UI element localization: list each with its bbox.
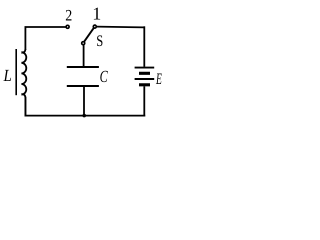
junction node dot <box>82 114 86 118</box>
terminal 2 <box>66 25 69 28</box>
svg-text:C: C <box>100 67 109 86</box>
svg-text:E: E <box>155 71 162 88</box>
svg-text:S: S <box>96 33 103 50</box>
wire: battery down to bottom wire <box>143 86 145 116</box>
wire: bottom horizontal <box>25 115 146 117</box>
capacitor C top plate <box>67 66 99 68</box>
battery E long plate 2 <box>135 78 155 80</box>
svg-text:L: L <box>3 66 12 85</box>
wire: top-left horizontal from inductor to terminal 2 <box>25 26 65 50</box>
capacitor C bottom plate <box>67 85 99 87</box>
switch pivot <box>82 42 85 45</box>
battery E long plate 1 <box>135 67 155 69</box>
switch arm S <box>84 27 94 41</box>
wire: inductor bottom vertical <box>24 97 26 117</box>
battery E short plate 1 <box>139 72 150 75</box>
svg-text:1: 1 <box>92 4 101 24</box>
inductor L coil <box>21 49 26 116</box>
wire: capacitor down to bottom wire <box>83 87 85 116</box>
wire: switch pivot down to capacitor <box>83 45 85 66</box>
battery E short plate 2 <box>139 83 150 86</box>
inductor core bar <box>15 49 17 95</box>
wire: right vertical upper <box>143 26 145 67</box>
wire: terminal 1 to top-right corner <box>97 26 144 29</box>
terminal 1 <box>93 25 96 28</box>
svg-text:2: 2 <box>65 8 72 25</box>
